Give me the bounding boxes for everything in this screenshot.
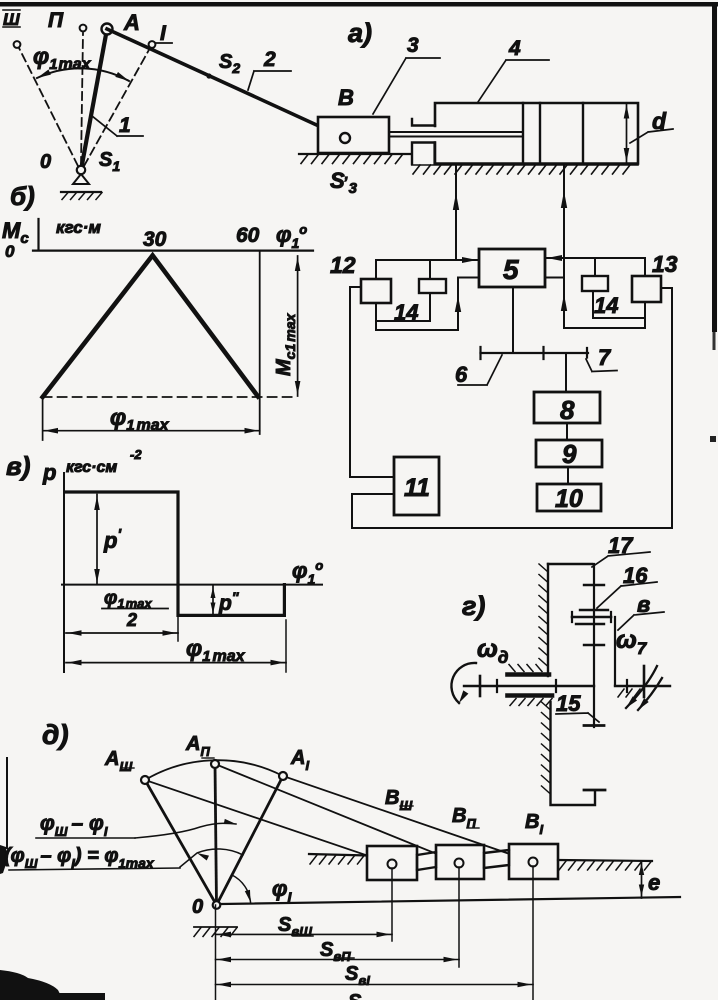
cylinder 4 body [435, 103, 638, 164]
svg-text:4: 4 [508, 37, 521, 60]
svg-text:6: 6 [455, 362, 468, 387]
svg-text:Ш: Ш [3, 10, 20, 29]
pressure step curve [66, 492, 284, 615]
svg-text:0: 0 [192, 896, 203, 918]
page top border [0, 2, 718, 7]
dimension e [641, 861, 643, 898]
slider 3 box [318, 117, 389, 153]
svg-text:11: 11 [404, 474, 430, 502]
gear 15 tooth mark [584, 644, 604, 646]
svg-text:а): а) [348, 18, 372, 48]
cylinder rod gland top [412, 119, 435, 126]
supply line left with arrow [455, 166, 457, 260]
gear frame wall lower [551, 702, 596, 805]
dimension S-BIII [216, 933, 393, 935]
svg-text:-2: -2 [130, 447, 142, 462]
lower stub cap [584, 789, 605, 792]
dimension Mc1max [297, 256, 299, 396]
bearing housing upper [508, 672, 550, 677]
block 12 [361, 279, 391, 303]
dimension phi1max horizontal [43, 397, 260, 440]
wire right loop into block5 [546, 277, 564, 279]
extension BII [458, 867, 460, 967]
rotation arrows omega7 [626, 666, 657, 708]
bearing housing lower [508, 693, 553, 698]
slider BI pin [529, 858, 538, 867]
slider pin circle [340, 133, 350, 143]
ground under slider 3 [299, 153, 411, 155]
output bearing tick [626, 680, 628, 692]
extension BIII [391, 868, 393, 941]
dashed crank position III [19, 48, 78, 166]
fan line O-AIII [145, 780, 217, 905]
lever 6-7 shaft [481, 352, 589, 354]
wire 14L bottom stub [377, 293, 430, 321]
svg-text:8: 8 [560, 395, 575, 425]
dimension p-prime [96, 495, 98, 585]
svg-text:2: 2 [126, 610, 137, 630]
wire 14L top stub [429, 260, 431, 279]
block 9 [536, 440, 602, 467]
S2 dot [206, 73, 211, 78]
wire block5 to lever [512, 287, 514, 353]
wire 8-9 [566, 423, 568, 440]
hatch under output shaft [618, 689, 640, 697]
svg-text:7: 7 [598, 345, 612, 370]
position I circle [149, 41, 156, 48]
extension BI [532, 866, 534, 1000]
svg-text:A: A [123, 10, 140, 35]
wire 14R top stub [594, 258, 596, 276]
angle arc phiI [232, 875, 251, 902]
svg-text:60: 60 [236, 224, 260, 247]
svg-text:12: 12 [330, 252, 356, 278]
svg-text:1: 1 [119, 114, 131, 137]
svg-text:кгс·м: кгс·м [56, 218, 101, 237]
rail left of BIII [309, 854, 367, 856]
svg-text:5: 5 [503, 254, 519, 285]
torque triangle [43, 255, 258, 397]
angle arc phiIII-phiI upper with leader [135, 823, 236, 838]
extension below O [215, 905, 217, 1000]
pivot O circle [77, 166, 85, 174]
svg-text:д): д) [42, 719, 69, 750]
svg-text:б): б) [10, 181, 35, 211]
joint AI circle [279, 772, 287, 780]
wire 14R bottom stub [593, 291, 645, 318]
svg-text:10: 10 [555, 485, 583, 513]
block 5 [479, 249, 545, 287]
slider BII pin [455, 859, 464, 868]
fan line O-AI [217, 776, 284, 905]
rotation arrow omega-d [451, 663, 476, 703]
dimension p-doubleprime [212, 585, 214, 615]
joint AIII circle [141, 776, 149, 784]
left edge fold line [6, 758, 8, 848]
bevel output shaft v [614, 617, 616, 685]
phi axis horizontal [62, 584, 322, 586]
60 deg ordinate line [259, 251, 261, 434]
gear 17 tooth mark [584, 584, 604, 586]
svg-text:г): г) [462, 591, 485, 621]
svg-text:15: 15 [556, 691, 581, 716]
block 10 [537, 484, 601, 511]
crank link 1 OA [81, 29, 107, 170]
extension line x286 [285, 620, 287, 672]
piston rod double line [389, 132, 523, 137]
left edge blotch [0, 845, 7, 874]
svg-text:B: B [338, 85, 354, 110]
slider BIII pin [388, 860, 397, 869]
bevel gear 16 [580, 609, 608, 611]
position II circle [80, 25, 87, 32]
bottom left blotch [0, 970, 62, 1000]
connecting rod 2 AB [107, 29, 345, 138]
svg-text:e: e [648, 870, 660, 895]
slider BI box [509, 844, 558, 879]
wire 12 top to block5 with arrow [376, 260, 478, 279]
svg-text:9: 9 [562, 439, 577, 469]
svg-text:13: 13 [652, 251, 678, 277]
svg-text:в): в) [6, 451, 30, 481]
input shaft end bar [479, 676, 482, 696]
dashed base line [43, 396, 296, 398]
O support hatch d [194, 926, 237, 928]
supply line right with arrow [563, 166, 565, 328]
wire lever to block8 [565, 353, 567, 392]
rail right of BI [558, 860, 652, 861]
gear frame wall upper [547, 564, 549, 676]
page right border [712, 2, 717, 332]
fan line O-AII [215, 764, 217, 905]
Mc axis corner [33, 219, 313, 251]
wire 12 bottom loop to block5 with arrow [376, 278, 478, 331]
crank pivot O support [73, 174, 89, 184]
svg-text:14: 14 [594, 293, 618, 318]
svg-text:3: 3 [407, 34, 419, 57]
position III circle [14, 41, 21, 48]
block 14 left [419, 279, 446, 293]
dimension d [626, 104, 628, 163]
output shaft end bar [643, 666, 646, 697]
ground under cylinder [412, 164, 638, 166]
wire 12 left to loop [350, 287, 394, 477]
gear vertical shaft [593, 564, 595, 727]
dimension S-BII [216, 959, 460, 961]
dimension S-BI [216, 984, 534, 986]
input shaft bearing ticks [497, 680, 556, 692]
link BIII-BII [417, 852, 436, 870]
block 13 [632, 276, 661, 302]
svg-text:φШ– φI: φШ– φI [40, 812, 108, 839]
shaft bottom cap [584, 724, 604, 727]
dashed crank position I [84, 48, 150, 166]
angle arc phi1max lower with leader [180, 849, 243, 867]
svg-text:кгс·см: кгс·см [66, 459, 117, 476]
input shaft [464, 685, 594, 687]
dashed crank position II [81, 33, 83, 165]
extension line x178 [177, 615, 179, 641]
svg-text:0: 0 [5, 242, 15, 261]
wire 9-10 [567, 467, 569, 484]
wire block5 right to 13 with arrow [546, 258, 645, 276]
piston lines [523, 103, 583, 164]
block 11 [394, 457, 439, 515]
dimension phi1max line v [66, 662, 286, 664]
guide axis line through O [222, 897, 680, 904]
wire 13 bottom loop [564, 302, 645, 328]
cylinder rod gland bottom [412, 143, 435, 164]
pivot O circle d [213, 901, 221, 909]
gear frame top [548, 563, 592, 565]
joint A circle [102, 24, 113, 35]
rod AI-BI [283, 776, 533, 862]
rod AII-BII [215, 764, 459, 863]
svg-text:p: p [42, 460, 56, 485]
block 14 right [582, 276, 608, 291]
link BII-BI [484, 850, 509, 868]
block 8 [534, 392, 600, 423]
dimension phi1max/2 line [66, 632, 178, 634]
svg-text:2: 2 [263, 48, 276, 71]
svg-text:0: 0 [40, 151, 51, 173]
arc through A positions [145, 760, 283, 780]
p axis vertical [63, 473, 65, 672]
arc phi1max with arrows [37, 68, 129, 81]
slider BIII box [367, 846, 417, 880]
rod AIII-BIII [145, 780, 392, 864]
output shaft [615, 685, 670, 687]
svg-text:П: П [48, 9, 64, 32]
svg-text:30: 30 [143, 228, 167, 251]
joint AII circle [211, 760, 219, 768]
slider BII box [436, 845, 484, 879]
wire block11 lower loop to block13 [352, 288, 672, 528]
